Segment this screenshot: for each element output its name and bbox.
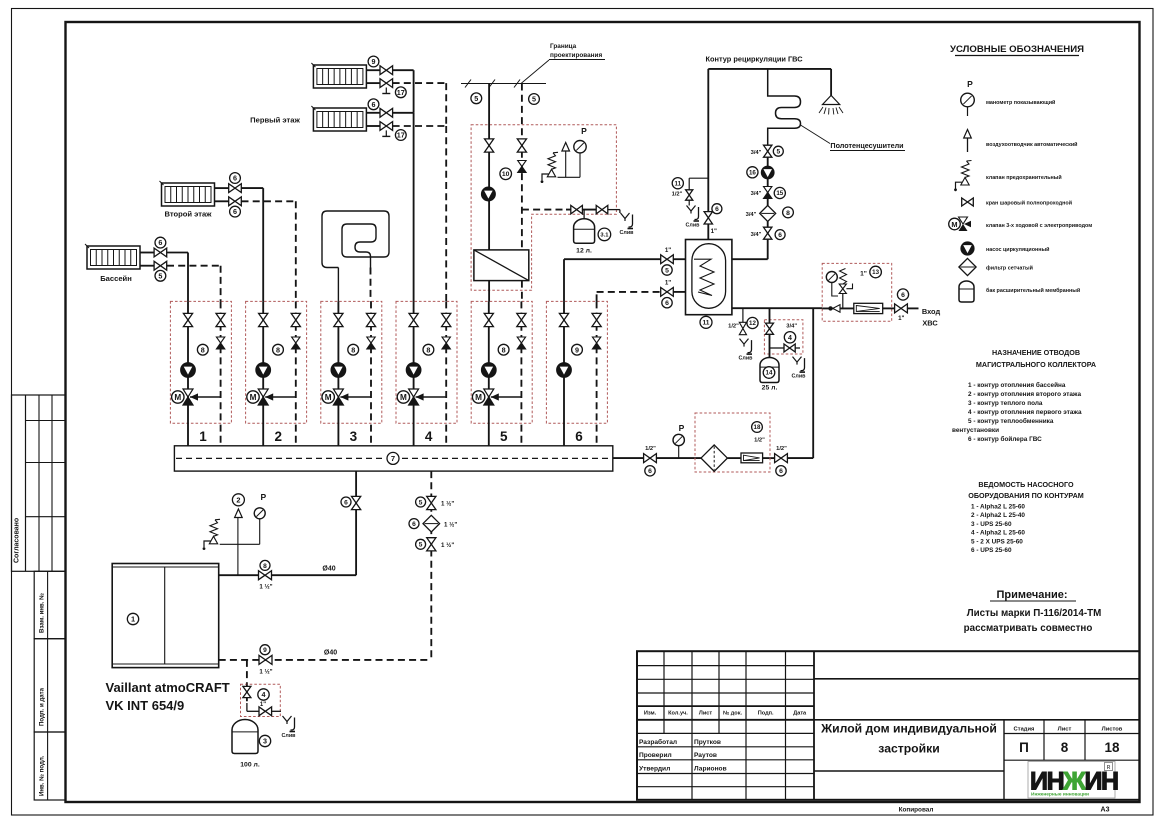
svg-text:Первый этаж: Первый этаж	[250, 116, 300, 125]
svg-text:Слив: Слив	[686, 223, 701, 229]
pipe radiator R3 supply	[215, 187, 229, 189]
legend safety valve	[961, 178, 969, 186]
svg-text:ВЕДОМОСТЬ НАСОСНОГО: ВЕДОМОСТЬ НАСОСНОГО	[978, 480, 1074, 489]
group 4 pump tag	[423, 344, 434, 355]
svg-text:17: 17	[397, 131, 405, 140]
svg-text:Листов: Листов	[1102, 727, 1123, 733]
svg-text:фильтр сетчатый: фильтр сетчатый	[986, 265, 1033, 272]
svg-text:16: 16	[749, 170, 756, 177]
tank drain branch tag 11	[689, 177, 708, 179]
svg-text:9: 9	[575, 345, 579, 354]
svg-text:рассматривать совместно: рассматривать совместно	[964, 623, 1093, 634]
group 2 supply pipe	[262, 301, 264, 445]
drain at tank riser	[687, 206, 696, 212]
svg-text:Слив: Слив	[620, 230, 635, 236]
valve R4 return with tag 5	[154, 261, 167, 270]
filling valve left tag 6	[644, 454, 657, 463]
legend expansion tank	[959, 281, 974, 302]
group 2 3-way mixing valve M	[265, 396, 296, 398]
legend 3-way valve	[959, 217, 968, 224]
svg-text:Прутков: Прутков	[694, 739, 721, 746]
pipe manifold to boiler supply	[355, 471, 357, 575]
svg-text:3/4": 3/4"	[751, 191, 762, 197]
group 3 pump tag	[348, 344, 359, 355]
group 6 return valve	[592, 313, 601, 326]
heat exchanger	[474, 250, 529, 281]
floor heating coil	[322, 211, 389, 301]
svg-text:Граница: Граница	[550, 43, 577, 50]
pipe group-4 risers	[413, 113, 415, 302]
svg-text:Контур рециркуляции ГВС: Контур рециркуляции ГВС	[705, 55, 803, 64]
boiler Vaillant atmoCRAFT tag 1	[112, 564, 219, 668]
radiator second floor	[162, 183, 215, 206]
HX circuit boundary box	[471, 125, 616, 291]
svg-text:13: 13	[872, 269, 879, 276]
svg-text:6: 6	[158, 238, 162, 247]
group 5 circulation pump	[481, 363, 496, 378]
svg-text:Слив: Слив	[792, 374, 807, 380]
svg-text:100 л.: 100 л.	[240, 762, 260, 769]
svg-text:Раутов: Раутов	[694, 752, 717, 759]
group 3 return valve	[366, 313, 375, 326]
svg-text:Vaillant atmoCRAFT: Vaillant atmoCRAFT	[106, 680, 230, 695]
svg-text:15: 15	[776, 190, 783, 197]
group 3 supply pipe	[337, 301, 339, 445]
svg-text:8: 8	[263, 563, 267, 570]
title block grid	[637, 651, 1140, 800]
pump group 3 boundary box	[321, 301, 382, 423]
svg-text:НАЗНАЧЕНИЕ ОТВОДОВ: НАЗНАЧЕНИЕ ОТВОДОВ	[992, 348, 1080, 357]
svg-text:Утвердил: Утвердил	[639, 765, 670, 772]
svg-text:насос циркуляционный: насос циркуляционный	[986, 246, 1049, 253]
svg-text:5: 5	[776, 149, 780, 156]
group 4 circulation pump	[406, 363, 421, 378]
svg-text:6: 6	[372, 100, 376, 109]
svg-text:6: 6	[665, 300, 669, 307]
svg-text:2: 2	[236, 495, 240, 504]
svg-text:кран шаровый полнопроходной: кран шаровый полнопроходной	[986, 200, 1072, 207]
svg-text:1: 1	[199, 429, 207, 444]
group 2 circulation pump	[256, 363, 271, 378]
tank riser pipe	[707, 224, 709, 239]
valve R2 supply with tag 6	[380, 108, 393, 117]
svg-text:ОБОРУДОВАНИЯ ПО КОНТУРАМ: ОБОРУДОВАНИЯ ПО КОНТУРАМ	[968, 491, 1084, 500]
recirc pump tag 16	[761, 166, 774, 179]
boiler air vent tag 2	[237, 517, 239, 520]
group 4 return valve	[442, 313, 451, 326]
group 2 return valve	[291, 313, 300, 326]
manifold collector tag 7	[174, 446, 612, 471]
svg-text:R: R	[1107, 765, 1111, 771]
drain at HX box	[621, 213, 630, 219]
pipe group 6 return from tank dashed	[596, 292, 598, 302]
svg-text:1 ½": 1 ½"	[441, 542, 454, 549]
group 5 pump tag	[498, 344, 509, 355]
svg-text:3: 3	[263, 737, 267, 746]
group 5 return pipe	[520, 301, 522, 445]
recirculation top pipe	[708, 68, 831, 70]
valve return upper tag 5	[427, 496, 436, 509]
pipe manifold to boiler return dashed	[430, 471, 432, 660]
pipe radiator R2 return	[366, 125, 380, 127]
pump group 2 boundary box	[246, 301, 307, 423]
svg-text:4 - контур отопления первого э: 4 - контур отопления первого этажа	[968, 409, 1082, 416]
svg-text:Слив: Слив	[282, 733, 297, 739]
HX circulation pump	[481, 187, 495, 201]
group 4 check valve	[442, 337, 450, 343]
svg-text:Разработал: Разработал	[639, 738, 677, 746]
group 2 return pipe	[295, 301, 297, 445]
drain at tank 14	[793, 357, 802, 363]
svg-text:1/2": 1/2"	[776, 446, 787, 452]
svg-text:Слив: Слив	[739, 356, 754, 362]
cold water inlet boundary box	[822, 263, 892, 321]
svg-text:3 - контур теплого пола: 3 - контур теплого пола	[968, 400, 1043, 407]
stamp box Инв. № подл.	[34, 732, 65, 800]
group 5 supply pipe	[488, 301, 490, 445]
design boundary line	[461, 83, 546, 85]
svg-text:Ларионов: Ларионов	[694, 765, 727, 772]
svg-text:1/2": 1/2"	[645, 446, 656, 452]
tank supply valve tag 5	[661, 255, 674, 264]
svg-text:8: 8	[786, 210, 790, 217]
boiler supply pipe	[219, 574, 259, 576]
svg-text:Изм.: Изм.	[644, 711, 657, 717]
svg-text:бак расширительный мембранный: бак расширительный мембранный	[986, 287, 1080, 294]
tank 3 fill box tag 4	[241, 684, 281, 716]
svg-text:8: 8	[426, 345, 430, 354]
group 2 pump tag	[273, 344, 284, 355]
svg-text:1: 1	[131, 615, 135, 624]
svg-text:Вход: Вход	[922, 307, 941, 316]
svg-text:6: 6	[715, 206, 719, 213]
svg-text:клапан предохранительный: клапан предохранительный	[986, 174, 1062, 181]
radiator valve R2 return with tag 17	[380, 122, 393, 131]
svg-text:M: M	[174, 393, 181, 402]
svg-text:1/2": 1/2"	[728, 324, 739, 330]
svg-text:P: P	[967, 79, 973, 89]
group 2 supply valve	[259, 313, 268, 326]
svg-text:ИНЖИН: ИНЖИН	[1030, 768, 1118, 796]
svg-text:5 - контур теплообменника: 5 - контур теплообменника	[968, 417, 1054, 425]
svg-text:Примечание:: Примечание:	[996, 589, 1067, 601]
svg-text:1": 1"	[711, 228, 717, 235]
svg-text:18: 18	[754, 424, 761, 431]
svg-text:Лист: Лист	[699, 711, 712, 717]
HX supply riser	[488, 84, 490, 251]
svg-text:УСЛОВНЫЕ ОБОЗНАЧЕНИЯ: УСЛОВНЫЕ ОБОЗНАЧЕНИЯ	[950, 44, 1084, 55]
svg-text:4: 4	[262, 690, 266, 699]
pipe radiator R4 return	[140, 265, 154, 267]
svg-text:5 - 2 X UPS 25-60: 5 - 2 X UPS 25-60	[971, 538, 1023, 545]
filling valve right tag 6	[775, 454, 788, 463]
svg-text:8: 8	[1061, 740, 1069, 755]
svg-text:M: M	[951, 220, 957, 229]
svg-text:1 - контур отопления бассейна: 1 - контур отопления бассейна	[968, 381, 1066, 389]
svg-text:3: 3	[350, 429, 358, 444]
svg-text:Стадия: Стадия	[1014, 727, 1035, 733]
svg-text:Ø40: Ø40	[322, 566, 335, 573]
HX check valve	[518, 161, 526, 167]
group 4 supply pipe	[413, 301, 415, 445]
svg-text:8: 8	[276, 345, 280, 354]
pipe radiator R2 supply	[366, 112, 380, 114]
svg-text:3 - UPS 25-60: 3 - UPS 25-60	[971, 521, 1012, 528]
svg-text:Листы марки П-116/2014-ТМ: Листы марки П-116/2014-ТМ	[967, 608, 1101, 619]
svg-text:Подп. и дата: Подп. и дата	[39, 687, 46, 726]
svg-text:1 ½": 1 ½"	[259, 584, 272, 591]
svg-text:7: 7	[391, 454, 395, 463]
group 6 supply pipe	[563, 301, 565, 445]
group 1 check valve	[216, 337, 224, 343]
boiler return pipe dashed	[219, 659, 432, 661]
svg-text:10: 10	[502, 171, 510, 178]
svg-text:6: 6	[233, 174, 237, 183]
svg-text:Взам. инв. №: Взам. инв. №	[39, 593, 46, 633]
group 5 check valve	[517, 337, 525, 343]
group 6 circulation pump	[557, 363, 572, 378]
pressure reducer	[842, 294, 844, 309]
group 5 supply valve	[484, 313, 493, 326]
svg-text:3.1: 3.1	[600, 232, 609, 238]
svg-text:8: 8	[351, 345, 355, 354]
svg-text:6: 6	[779, 468, 783, 475]
svg-text:6 - контур бойлера ГВС: 6 - контур бойлера ГВС	[968, 435, 1042, 443]
recirc check valve tag 15	[767, 179, 769, 206]
cold water line under tank	[732, 307, 822, 309]
svg-text:воздухоотводчик автоматический: воздухоотводчик автоматический	[986, 141, 1077, 148]
svg-text:ХВС: ХВС	[922, 319, 938, 328]
svg-text:VK INT 654/9: VK INT 654/9	[106, 698, 185, 713]
recirc valve 3/4 tag 5	[767, 146, 769, 166]
svg-text:1/2": 1/2"	[754, 438, 765, 444]
HX return valve	[517, 139, 526, 152]
svg-text:застройки: застройки	[878, 742, 939, 756]
svg-text:3/4": 3/4"	[786, 323, 797, 329]
pipe radiator R1 return	[366, 82, 380, 84]
svg-text:6 - UPS 25-60: 6 - UPS 25-60	[971, 547, 1012, 554]
valve R3 return with tag 6	[229, 197, 242, 206]
svg-text:1 ½": 1 ½"	[259, 668, 272, 675]
expansion tank 3.1 12l	[574, 219, 595, 244]
group 3 check valve	[367, 337, 375, 343]
svg-text:8: 8	[201, 345, 205, 354]
group 3 3-way mixing valve M	[340, 396, 371, 398]
svg-text:M: M	[475, 393, 482, 402]
radiator valve R1 return with tag 17	[380, 79, 393, 88]
svg-text:6: 6	[344, 499, 348, 506]
svg-text:M: M	[325, 393, 332, 402]
towel warmer serpentine	[768, 69, 801, 146]
tank drain branch tag 12	[742, 308, 744, 322]
svg-text:Согласовано: Согласовано	[14, 518, 21, 563]
group 3 circulation pump	[331, 363, 346, 378]
svg-text:M: M	[250, 393, 257, 402]
strainer return tag 6	[423, 515, 440, 532]
pipe radiator R4 supply	[140, 252, 154, 254]
tank riser valve tag 6	[704, 212, 712, 224]
HX supply valve	[485, 139, 494, 152]
tank outlet to recirc	[732, 258, 768, 260]
svg-text:Кол.уч.: Кол.уч.	[668, 711, 688, 717]
svg-text:1 ½": 1 ½"	[441, 501, 454, 508]
legend strainer	[959, 258, 976, 275]
svg-text:6: 6	[778, 232, 782, 239]
drain at tank 3	[283, 716, 292, 722]
radiator first floor upper	[313, 65, 366, 88]
svg-text:Ø40: Ø40	[324, 650, 337, 657]
svg-text:9: 9	[372, 57, 376, 66]
svg-text:9: 9	[263, 647, 267, 654]
svg-text:А3: А3	[1101, 807, 1110, 814]
valve R4 supply with tag 6	[154, 248, 167, 257]
svg-text:1 ½": 1 ½"	[444, 522, 457, 529]
svg-text:Копировал: Копировал	[899, 807, 934, 814]
group 2 check valve	[292, 337, 300, 343]
svg-text:Бассейн: Бассейн	[100, 274, 132, 283]
group 6 check valve	[592, 337, 600, 343]
expansion tank 3 100l	[232, 720, 258, 754]
expansion branch to tank 3	[246, 660, 248, 684]
group 5 3-way mixing valve M	[491, 396, 522, 398]
DHW tank 11	[686, 240, 732, 315]
svg-text:6: 6	[648, 468, 652, 475]
svg-text:Инв. № подл.: Инв. № подл.	[39, 755, 46, 796]
group 6 supply valve	[559, 313, 568, 326]
svg-text:Второй этаж: Второй этаж	[164, 210, 212, 219]
svg-text:P: P	[581, 126, 587, 136]
stamp box Подп. и дата	[34, 639, 65, 732]
svg-text:МАГИСТРАЛЬНОГО КОЛЛЕКТОРА: МАГИСТРАЛЬНОГО КОЛЛЕКТОРА	[976, 360, 1096, 369]
svg-text:проектирования: проектирования	[550, 52, 602, 59]
svg-text:4 - Alpha2 L 25-60: 4 - Alpha2 L 25-60	[971, 530, 1025, 537]
group 6 pump tag	[572, 344, 583, 355]
group 1 return valve	[216, 313, 225, 326]
pipe radiator R3 return	[215, 200, 229, 202]
inlet valve tag 6	[895, 304, 908, 313]
svg-text:№ док.: № док.	[723, 711, 743, 717]
boiler supply valve tag 8	[259, 571, 272, 580]
HX safety valve assembly	[558, 176, 581, 178]
svg-text:6: 6	[901, 292, 905, 299]
boiler safety valve	[209, 536, 217, 544]
drain under tank	[740, 339, 749, 345]
svg-text:14: 14	[766, 370, 773, 377]
svg-text:Лист: Лист	[1058, 727, 1072, 733]
legend pump	[961, 242, 974, 255]
svg-text:манометр показывающий: манометр показывающий	[986, 99, 1055, 106]
group 4 return pipe	[445, 301, 447, 445]
svg-text:P: P	[260, 492, 266, 502]
svg-text:2: 2	[274, 429, 282, 444]
svg-text:6: 6	[412, 521, 416, 528]
svg-text:6: 6	[233, 207, 237, 216]
expansion tank branch	[522, 209, 566, 211]
towel warmer label	[801, 125, 831, 144]
svg-text:6: 6	[575, 429, 583, 444]
svg-text:Проверил: Проверил	[639, 752, 672, 759]
boiler return valve tag 9	[259, 655, 272, 664]
radiator first floor lower	[313, 108, 366, 131]
svg-text:25 л.: 25 л.	[762, 385, 778, 392]
valve return lower tag 5	[427, 538, 436, 551]
group 1 supply valve	[183, 313, 192, 326]
group 4 3-way mixing valve M	[416, 396, 447, 398]
group 1 circulation pump	[181, 363, 196, 378]
svg-text:12: 12	[749, 320, 756, 327]
logo ИНЖИН	[1028, 762, 1115, 799]
svg-text:5: 5	[158, 271, 162, 280]
svg-text:Инженерные инновации: Инженерные инновации	[1031, 792, 1089, 798]
svg-text:P: P	[679, 423, 685, 433]
svg-text:4: 4	[788, 335, 792, 342]
tank return valve tag 6	[661, 288, 674, 297]
svg-text:5: 5	[532, 95, 536, 104]
HX outlet pipes to group 5	[488, 281, 490, 302]
svg-text:5: 5	[665, 267, 669, 274]
valve manifold supply tag 6	[352, 496, 361, 509]
svg-text:5: 5	[419, 499, 423, 506]
pipe group 6 supply to tank	[563, 259, 565, 301]
radiator pool Бассейн	[87, 246, 140, 269]
shower head symbol	[823, 95, 840, 104]
group 1 pump tag	[197, 344, 208, 355]
svg-text:12 л.: 12 л.	[576, 248, 592, 255]
filling station boundary box	[695, 413, 770, 472]
inlet pressure gauge	[826, 272, 837, 283]
svg-text:3/4": 3/4"	[751, 232, 762, 238]
svg-text:1": 1"	[860, 271, 867, 278]
legend air vent	[967, 138, 969, 152]
filling meter tag 18	[752, 422, 763, 433]
valve R1 supply with tag 9	[380, 66, 393, 75]
svg-text:П: П	[1019, 740, 1029, 755]
svg-text:5: 5	[474, 94, 478, 103]
svg-text:1": 1"	[260, 702, 266, 708]
svg-text:8: 8	[502, 345, 506, 354]
svg-text:11: 11	[675, 180, 682, 187]
svg-text:Подп.: Подп.	[758, 711, 774, 717]
svg-text:1": 1"	[898, 315, 904, 322]
group 6 return pipe	[596, 301, 598, 445]
group 3 return pipe	[370, 301, 372, 445]
svg-text:5: 5	[419, 542, 423, 549]
cold water inlet pipe	[822, 307, 854, 309]
svg-text:3/4": 3/4"	[746, 212, 757, 218]
svg-text:Полотенцесушители: Полотенцесушители	[830, 141, 903, 150]
pipe radiator R1 supply	[366, 69, 380, 71]
svg-text:вентустановки: вентустановки	[952, 427, 999, 434]
pump group 1 boundary box	[170, 301, 231, 423]
svg-text:Жилой дом индивидуальной: Жилой дом индивидуальной	[820, 722, 997, 736]
svg-text:1 - Alpha2 L 25-60: 1 - Alpha2 L 25-60	[971, 504, 1025, 511]
filling strainer	[701, 445, 727, 471]
svg-text:11: 11	[703, 320, 710, 327]
filling line	[613, 457, 644, 459]
svg-text:5: 5	[500, 429, 508, 444]
group 1 supply pipe	[187, 301, 189, 445]
pump group 5 boundary box	[471, 301, 532, 423]
stamp box Взам. инв. №	[34, 571, 65, 638]
pump group 6 boundary box	[546, 301, 607, 423]
valve R3 supply with tag 6	[229, 184, 242, 193]
HX return riser dashed	[521, 84, 523, 251]
svg-text:M: M	[400, 393, 407, 402]
legend ball valve	[962, 198, 974, 206]
inlet check valve	[828, 306, 832, 310]
svg-text:1": 1"	[665, 247, 671, 254]
svg-text:2 - Alpha2 L 25-40: 2 - Alpha2 L 25-40	[971, 512, 1025, 519]
